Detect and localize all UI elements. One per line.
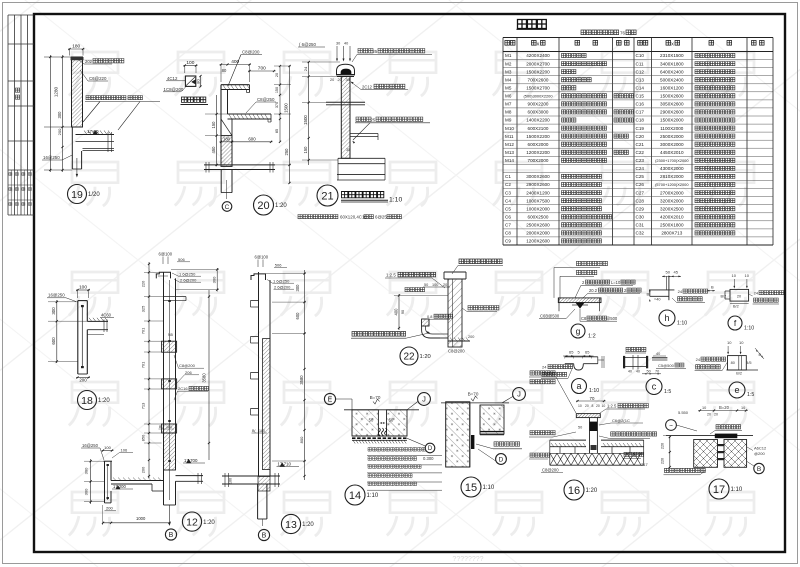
svg-text:300: 300 bbox=[212, 276, 217, 283]
svg-text:20: 20 bbox=[737, 295, 741, 299]
svg-text:B/5: B/5 bbox=[746, 361, 752, 365]
svg-text:506: 506 bbox=[178, 257, 185, 262]
svg-text:15: 15 bbox=[465, 482, 477, 494]
detail 20 upper slab bbox=[221, 84, 250, 86]
column section square detail bbox=[183, 65, 197, 67]
detail 12 low wall left chain bbox=[90, 459, 92, 504]
svg-text:M6: M6 bbox=[505, 94, 512, 99]
svg-text:C21: C21 bbox=[636, 142, 645, 147]
svg-text:4200X2010: 4200X2010 bbox=[660, 215, 684, 220]
svg-text:M2: M2 bbox=[505, 61, 512, 66]
detail 22 small texts bbox=[405, 288, 425, 292]
svg-text:80: 80 bbox=[195, 79, 200, 84]
svg-text:6@25: 6@25 bbox=[375, 215, 387, 220]
svg-text:150: 150 bbox=[303, 146, 308, 154]
svg-text:C31: C31 bbox=[636, 223, 645, 228]
svg-text:40: 40 bbox=[628, 370, 632, 374]
left title strip table bbox=[7, 15, 9, 215]
svg-text:50: 50 bbox=[647, 369, 651, 373]
detail 15 note bbox=[494, 442, 520, 446]
svg-text:6@100: 6@100 bbox=[159, 252, 173, 257]
svg-text:(2300+1700)X2000: (2300+1700)X2000 bbox=[655, 158, 689, 163]
svg-text:50: 50 bbox=[666, 270, 671, 275]
svg-text:1 6@250: 1 6@250 bbox=[179, 271, 196, 276]
svg-text:65: 65 bbox=[569, 349, 574, 354]
svg-text:600X3000: 600X3000 bbox=[528, 110, 549, 115]
detail 21 hatched post bbox=[341, 77, 350, 159]
svg-text:M7: M7 bbox=[505, 102, 512, 107]
detail 22 caption bbox=[400, 347, 418, 365]
svg-text:2800X713: 2800X713 bbox=[661, 231, 682, 236]
svg-text:90: 90 bbox=[401, 310, 405, 314]
svg-text:45: 45 bbox=[674, 270, 679, 275]
detail 15 bubble D bbox=[496, 454, 507, 465]
svg-text:18: 18 bbox=[81, 395, 93, 407]
svg-text:@500: @500 bbox=[606, 316, 618, 321]
svg-text:25: 25 bbox=[373, 49, 378, 54]
svg-text:1000: 1000 bbox=[136, 516, 146, 521]
svg-text:1:5: 1:5 bbox=[664, 389, 671, 395]
svg-text:1:10: 1:10 bbox=[389, 197, 402, 204]
svg-text:701: 701 bbox=[141, 328, 146, 335]
svg-text:200: 200 bbox=[57, 128, 62, 135]
svg-text:701: 701 bbox=[141, 362, 146, 369]
svg-text:1C8@200: 1C8@200 bbox=[164, 87, 184, 92]
svg-text:1100X2000: 1100X2000 bbox=[660, 126, 684, 131]
svg-text:B: B bbox=[262, 533, 267, 540]
svg-text:C22: C22 bbox=[636, 150, 645, 155]
svg-text:1500: 1500 bbox=[303, 115, 308, 125]
detail 22 left dim 400 bbox=[398, 294, 400, 330]
detail 12 inner chain 3580 bbox=[208, 290, 210, 460]
detail 12 right slab bbox=[176, 475, 204, 477]
svg-text:20: 20 bbox=[443, 283, 447, 287]
svg-text:325: 325 bbox=[141, 306, 146, 313]
svg-text:g: g bbox=[576, 326, 581, 336]
svg-text:5000X2400: 5000X2400 bbox=[660, 77, 684, 82]
svg-text:17.710: 17.710 bbox=[278, 461, 292, 466]
svg-text:713: 713 bbox=[141, 403, 146, 410]
detail 18 wall bbox=[77, 301, 79, 374]
detail 13 parapet cap bbox=[251, 274, 266, 280]
svg-text:C12: C12 bbox=[636, 69, 645, 74]
svg-text:21: 21 bbox=[321, 191, 333, 203]
svg-text:1280: 1280 bbox=[54, 86, 59, 97]
svg-text:1:10: 1:10 bbox=[744, 326, 754, 332]
svg-text:1500X2000: 1500X2000 bbox=[660, 118, 684, 123]
svg-text:4C60: 4C60 bbox=[101, 313, 112, 318]
detail 12 wall vertical lines bbox=[163, 272, 165, 505]
svg-text:717: 717 bbox=[641, 462, 648, 467]
svg-text:X: X bbox=[671, 41, 674, 46]
svg-text:c: c bbox=[652, 382, 657, 392]
svg-text:X: X bbox=[537, 41, 540, 46]
detail a plate with drip bbox=[565, 357, 598, 364]
svg-text:C2: C2 bbox=[505, 182, 511, 187]
svg-text:C32: C32 bbox=[636, 231, 645, 236]
svg-text:200: 200 bbox=[141, 466, 146, 473]
svg-text:2500X2000: 2500X2000 bbox=[660, 134, 684, 139]
detail 20 grid bubble C bbox=[222, 202, 232, 212]
svg-text:13: 13 bbox=[285, 519, 297, 531]
detail g leader drop lines bbox=[553, 268, 555, 298]
svg-text:3200X2500: 3200X2500 bbox=[660, 206, 684, 211]
svg-text:700: 700 bbox=[258, 66, 266, 72]
svg-text:1500X2600: 1500X2600 bbox=[660, 94, 684, 99]
svg-text:850: 850 bbox=[141, 434, 146, 441]
svg-text:C14: C14 bbox=[636, 86, 645, 91]
svg-text:C6: C6 bbox=[505, 215, 511, 220]
svg-text:300: 300 bbox=[295, 284, 300, 292]
detail 17 caption bbox=[709, 479, 729, 499]
svg-text:76: 76 bbox=[620, 31, 626, 36]
detail 14 legend text block bbox=[368, 448, 426, 452]
svg-text:3000X2000: 3000X2000 bbox=[660, 142, 684, 147]
svg-text:h: h bbox=[664, 313, 669, 323]
svg-text:e: e bbox=[734, 385, 739, 395]
svg-text:220: 220 bbox=[661, 443, 665, 449]
svg-text:1:20: 1:20 bbox=[302, 522, 314, 528]
svg-text:25: 25 bbox=[371, 117, 376, 122]
detail 18 caption bbox=[78, 391, 97, 410]
svg-text:300: 300 bbox=[57, 111, 62, 119]
detail 16 roof slabs bbox=[550, 439, 586, 441]
svg-text:202: 202 bbox=[85, 59, 93, 64]
svg-text:C20: C20 bbox=[636, 134, 645, 139]
detail 17 note bbox=[716, 425, 741, 429]
svg-text:24: 24 bbox=[678, 289, 683, 294]
svg-text:2700X2000: 2700X2000 bbox=[660, 190, 684, 195]
detail 14 bubble D bbox=[425, 443, 435, 453]
svg-text:1:2.5: 1:2.5 bbox=[386, 273, 396, 278]
svg-text:C17: C17 bbox=[636, 110, 645, 115]
svg-text:206: 206 bbox=[185, 370, 192, 375]
detail 19 floor slab bbox=[76, 134, 115, 136]
svg-text:1:20: 1:20 bbox=[203, 520, 215, 526]
detail 19 left dimension chain bbox=[49, 55, 51, 172]
svg-text:10: 10 bbox=[602, 404, 606, 408]
detail 13 hatched wall core bbox=[263, 339, 271, 470]
svg-text:800: 800 bbox=[299, 436, 304, 443]
svg-text:D: D bbox=[499, 456, 504, 463]
svg-text:C5: C5 bbox=[505, 206, 511, 211]
svg-text:65: 65 bbox=[585, 349, 590, 354]
svg-text:50: 50 bbox=[578, 426, 582, 430]
svg-text:200: 200 bbox=[106, 506, 113, 511]
svg-text:C16: C16 bbox=[636, 102, 645, 107]
detail g caption bbox=[571, 324, 585, 338]
svg-text:B/2: B/2 bbox=[733, 304, 739, 308]
svg-text:@500: @500 bbox=[548, 314, 560, 319]
detail 16 hanging labels bbox=[530, 453, 550, 457]
svg-text:M14: M14 bbox=[505, 158, 514, 163]
detail 21 step profile bbox=[350, 133, 378, 135]
svg-text:1600X1200: 1600X1200 bbox=[660, 86, 684, 91]
detail 16 bolt bbox=[589, 418, 591, 453]
detail 14 left hatched block bbox=[352, 410, 378, 436]
detail 19 hatched wall bbox=[72, 57, 83, 127]
detail 19 wall below slab bbox=[71, 127, 73, 169]
detail 14 caption bbox=[345, 485, 365, 505]
svg-text:100: 100 bbox=[432, 283, 438, 287]
svg-text:M13: M13 bbox=[505, 150, 514, 155]
detail 21 tread line bbox=[326, 101, 365, 103]
detail 13 footing hatch bbox=[258, 477, 270, 492]
svg-text:C23: C23 bbox=[636, 158, 645, 163]
svg-text:12: 12 bbox=[186, 516, 198, 528]
svg-text:1000X2000: 1000X2000 bbox=[526, 206, 550, 211]
svg-text:C26: C26 bbox=[636, 182, 645, 187]
detail 19 caption bubble bbox=[68, 185, 87, 204]
svg-text:506: 506 bbox=[275, 263, 282, 268]
svg-text:6400X2400: 6400X2400 bbox=[660, 69, 684, 74]
svg-text:10: 10 bbox=[732, 273, 737, 278]
svg-text:40: 40 bbox=[636, 370, 640, 374]
svg-text:C: C bbox=[225, 204, 230, 211]
svg-text:50: 50 bbox=[389, 418, 394, 423]
svg-text:C9: C9 bbox=[505, 239, 511, 244]
svg-text:2310X1500: 2310X1500 bbox=[660, 53, 684, 58]
svg-text:700X2000: 700X2000 bbox=[528, 158, 549, 163]
svg-text:@200: @200 bbox=[754, 451, 766, 456]
detail 13 caption bbox=[281, 514, 300, 533]
svg-text:2000X2700: 2000X2700 bbox=[526, 61, 550, 66]
svg-text:1:20: 1:20 bbox=[275, 203, 287, 209]
detail 18 slab right bbox=[87, 320, 108, 322]
svg-text:17: 17 bbox=[713, 484, 725, 496]
svg-text:100: 100 bbox=[104, 445, 111, 450]
detail 19 annotation note bbox=[86, 96, 126, 100]
svg-text:C24: C24 bbox=[636, 166, 645, 171]
svg-text:J: J bbox=[422, 395, 426, 404]
svg-text:50: 50 bbox=[424, 283, 428, 287]
detail 19 parapet wall section bbox=[68, 48, 85, 50]
schedule table grid bbox=[502, 38, 504, 246]
detail 20 inner segment chain bbox=[279, 66, 281, 142]
svg-text:B/2: B/2 bbox=[721, 295, 727, 299]
detail c left profile bbox=[623, 356, 625, 368]
svg-text:600: 600 bbox=[51, 337, 56, 345]
detail 15 joint sealant bbox=[471, 435, 474, 449]
svg-text:600: 600 bbox=[295, 312, 300, 320]
svg-text:24: 24 bbox=[542, 365, 547, 370]
svg-text:16@250: 16@250 bbox=[43, 155, 60, 160]
detail 20 bottom dims bbox=[220, 141, 234, 143]
svg-text:1:10: 1:10 bbox=[367, 493, 379, 499]
svg-text:( 6@250: ( 6@250 bbox=[299, 42, 316, 47]
detail 12 top right small dim bbox=[216, 268, 218, 292]
svg-text:M3: M3 bbox=[505, 69, 512, 74]
detail c note weld bbox=[626, 347, 646, 351]
svg-text:C15: C15 bbox=[636, 94, 645, 99]
svg-text:=40: =40 bbox=[654, 298, 660, 302]
detail 16 cap plate bbox=[576, 414, 600, 418]
svg-text:C5@500: C5@500 bbox=[658, 363, 675, 368]
svg-text:19: 19 bbox=[71, 189, 83, 201]
svg-text:1:2: 1:2 bbox=[588, 334, 596, 340]
detail 21 handrail profile bbox=[337, 64, 355, 75]
svg-text:10: 10 bbox=[745, 273, 750, 278]
svg-text:450: 450 bbox=[211, 146, 216, 154]
svg-text:2 6@200: 2 6@200 bbox=[274, 284, 291, 289]
svg-text:2900X2600: 2900X2600 bbox=[660, 110, 684, 115]
svg-text:C13: C13 bbox=[636, 77, 645, 82]
detail 12 hatched lower wall bbox=[164, 433, 176, 470]
detail 22 gutter profile bbox=[422, 319, 429, 326]
svg-text:250: 250 bbox=[284, 148, 289, 156]
svg-text:600: 600 bbox=[248, 136, 256, 141]
detail g plate bar bbox=[558, 298, 601, 303]
svg-text:80: 80 bbox=[731, 361, 735, 365]
column section caption bbox=[182, 97, 206, 102]
svg-text:C6@2(1C: C6@2(1C bbox=[612, 418, 630, 423]
svg-text:C6@220: C6@220 bbox=[89, 76, 107, 81]
svg-text:30: 30 bbox=[336, 42, 340, 46]
svg-text:2500X1800: 2500X1800 bbox=[660, 223, 684, 228]
svg-text:2400X1200: 2400X1200 bbox=[526, 190, 550, 195]
detail 12 left slab bbox=[111, 480, 164, 482]
svg-text:16@250: 16@250 bbox=[82, 443, 99, 448]
detail a caption bbox=[572, 379, 587, 394]
svg-text:B=70: B=70 bbox=[370, 395, 381, 400]
svg-text:70: 70 bbox=[655, 369, 659, 373]
detail e caption bbox=[729, 382, 745, 398]
svg-text:B: B bbox=[711, 285, 714, 290]
svg-text:8: 8 bbox=[592, 404, 594, 408]
svg-text:6@100: 6@100 bbox=[255, 255, 269, 260]
svg-text:17.700: 17.700 bbox=[184, 458, 198, 463]
svg-text:300: 300 bbox=[84, 488, 89, 495]
svg-text:1:10: 1:10 bbox=[589, 388, 599, 394]
svg-text:10: 10 bbox=[578, 404, 582, 408]
svg-text:35: 35 bbox=[346, 148, 350, 152]
svg-text:C19: C19 bbox=[636, 126, 645, 131]
detail 16 lattice insulation bbox=[550, 453, 557, 465]
detail 20 right dimension chain bbox=[289, 66, 291, 183]
svg-text:40: 40 bbox=[344, 42, 348, 46]
svg-text:C18: C18 bbox=[636, 118, 645, 123]
detail 14 waterproof band bbox=[352, 435, 407, 437]
detail 17 bubble B bbox=[754, 463, 764, 473]
svg-text:2 6@200: 2 6@200 bbox=[180, 277, 197, 282]
svg-text:3400X1800: 3400X1800 bbox=[660, 61, 684, 66]
svg-text:150: 150 bbox=[211, 121, 216, 129]
svg-text:B=70: B=70 bbox=[468, 392, 479, 397]
svg-text:1:10: 1:10 bbox=[677, 321, 687, 327]
detail h flashing profile bbox=[668, 276, 670, 300]
svg-text:100: 100 bbox=[229, 478, 233, 484]
detail 12 caption bbox=[182, 512, 201, 531]
svg-text:4C12: 4C12 bbox=[167, 76, 178, 81]
svg-text:D: D bbox=[428, 446, 433, 452]
svg-text:700X2600: 700X2600 bbox=[528, 77, 549, 82]
svg-text:~: ~ bbox=[669, 422, 673, 429]
svg-text:(5700+1200)X2000: (5700+1200)X2000 bbox=[655, 182, 689, 187]
detail 12 grid bubble B bbox=[165, 529, 176, 540]
svg-text:370: 370 bbox=[275, 102, 279, 108]
schedule table subtitle note bbox=[581, 30, 619, 35]
detail h caption bbox=[659, 310, 675, 326]
svg-text:300: 300 bbox=[84, 467, 89, 474]
svg-text:C29: C29 bbox=[636, 206, 645, 211]
svg-text:3200X2000: 3200X2000 bbox=[660, 198, 684, 203]
svg-text:600X2000: 600X2000 bbox=[528, 142, 549, 147]
svg-text:E: E bbox=[328, 397, 333, 404]
svg-text:B/2: B/2 bbox=[736, 372, 742, 376]
svg-text:A6C12: A6C12 bbox=[754, 446, 767, 451]
detail 21 lower steps bbox=[338, 157, 385, 159]
detail 17 hatched blocks bbox=[694, 440, 718, 468]
svg-text:C8@200: C8@200 bbox=[448, 349, 465, 354]
detail 13 right dimension chain bbox=[304, 270, 306, 480]
svg-text:C8@200: C8@200 bbox=[179, 363, 196, 368]
detail 15 top line bbox=[441, 402, 509, 404]
svg-text:100: 100 bbox=[186, 60, 194, 66]
detail f caption bbox=[728, 316, 742, 330]
svg-text:1500: 1500 bbox=[284, 103, 289, 113]
detail 12 left dimension chain bbox=[148, 262, 150, 478]
svg-text:a: a bbox=[576, 381, 581, 391]
svg-text:50: 50 bbox=[369, 418, 374, 423]
svg-text:20: 20 bbox=[596, 404, 600, 408]
svg-text:600X2500: 600X2500 bbox=[528, 215, 549, 220]
svg-text:14: 14 bbox=[349, 490, 361, 502]
detail 15 left wall hatched bbox=[446, 402, 470, 467]
svg-text:C10: C10 bbox=[636, 53, 645, 58]
schedule table title 门窗表 bbox=[518, 20, 547, 29]
svg-text:180: 180 bbox=[72, 44, 80, 50]
svg-text:B: B bbox=[647, 292, 650, 297]
detail 12 beam boxes bbox=[162, 341, 177, 352]
svg-text:0.300: 0.300 bbox=[423, 456, 434, 461]
svg-text:200: 200 bbox=[468, 335, 474, 339]
svg-text:80: 80 bbox=[222, 68, 227, 73]
svg-text:C3: C3 bbox=[505, 190, 511, 195]
svg-text:3050X2600: 3050X2600 bbox=[660, 102, 684, 107]
svg-text:24: 24 bbox=[754, 291, 759, 296]
svg-text:C4: C4 bbox=[505, 198, 511, 203]
svg-text:200: 200 bbox=[79, 378, 87, 383]
detail 22 slab right of gutter bbox=[448, 340, 470, 342]
detail 17 joint ties bbox=[718, 444, 725, 446]
svg-text:10: 10 bbox=[741, 406, 745, 410]
column section right dim 80 bbox=[200, 76, 202, 87]
detail 15 right wall hatched bbox=[480, 405, 504, 434]
detail 12 bottom arrow and dim bbox=[169, 505, 171, 524]
svg-text:2000X2000: 2000X2000 bbox=[526, 231, 550, 236]
svg-text:1000X7500: 1000X7500 bbox=[526, 198, 550, 203]
detail 20 foundation bbox=[204, 164, 275, 166]
detail 15 caption bbox=[461, 477, 481, 497]
detail 18 left dim chain bbox=[56, 300, 58, 363]
svg-text:220: 220 bbox=[141, 280, 146, 287]
detail 21 note weld to embed bbox=[356, 117, 371, 121]
svg-text:900X2200: 900X2200 bbox=[528, 102, 549, 107]
detail 13 stem bbox=[257, 484, 259, 519]
svg-text:3580: 3580 bbox=[299, 375, 304, 385]
detail 17 top line bbox=[666, 435, 753, 437]
svg-text:10: 10 bbox=[739, 340, 744, 345]
detail f box bbox=[730, 289, 749, 301]
svg-text:1 6@250: 1 6@250 bbox=[273, 278, 290, 283]
svg-text:150: 150 bbox=[275, 87, 279, 93]
svg-text:1:5: 1:5 bbox=[747, 392, 754, 398]
svg-text:1:20: 1:20 bbox=[586, 488, 598, 494]
svg-text:20.2: 20.2 bbox=[589, 288, 598, 293]
svg-text:N5: N5 bbox=[168, 333, 173, 337]
detail g bolt bbox=[576, 303, 584, 308]
svg-text:(500)3000X2200: (500)3000X2200 bbox=[524, 94, 554, 99]
